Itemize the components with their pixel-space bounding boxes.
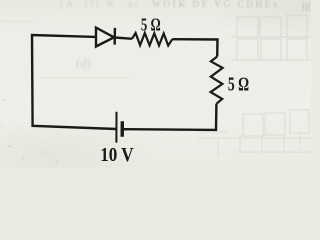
ghost bleed-through text top: [60, 0, 140, 10]
wire: R1 to top-right corner down to resistor R2: [172, 39, 217, 56]
ghost table boxes upper right: [0, 0, 311, 168]
ghost label (b): [76, 55, 91, 71]
wire: R2 down to bottom-right corner to battery: [122, 104, 216, 130]
battery B1 short plate (negative): [120, 121, 124, 137]
circuit drawing: [0, 0, 311, 168]
svg-text:5 Ω: 5 Ω: [228, 73, 249, 95]
battery B1 long plate (positive): [115, 112, 117, 143]
ghost dark marks right edge: [302, 1, 311, 12]
wire: top-left segment, left side, bottom-left segment: [32, 35, 117, 129]
resistor R2 zigzag (5 ohm, right): [211, 57, 223, 104]
wire: diode to resistor R1: [115, 38, 132, 39]
diode D1 triangle (anode): [96, 28, 114, 47]
resistor R1 zigzag (5 ohm, top): [132, 33, 172, 46]
ghost squiggle top-left: [2, 16, 39, 26]
svg-text:5 Ω: 5 Ω: [141, 15, 161, 35]
diode D1 cathode bar: [113, 28, 116, 45]
svg-text:10 V: 10 V: [100, 144, 134, 167]
